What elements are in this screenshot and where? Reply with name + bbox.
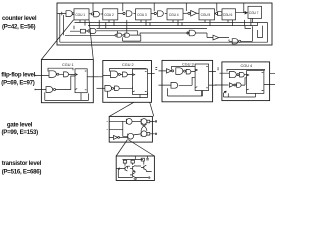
transistor Q3 (output high)	[135, 165, 146, 171]
nand gate F6 in counter feedback (bottom right)	[229, 26, 253, 44]
counter-level misc verticals	[150, 18, 251, 28]
and gate G0 (counter input)	[58, 11, 74, 17]
counter CGU3 box	[136, 9, 152, 20]
CGU1 and gate A	[49, 71, 59, 78]
CGU4 bottom clock wire	[224, 93, 256, 97]
CGU4 input wires	[215, 73, 229, 85]
CGU1 feedback loop wire	[48, 68, 73, 71]
CGU3 feedback loop wire	[172, 67, 196, 70]
level label: transistor level (P=516, E=686)	[2, 160, 42, 176]
gate-level wire nand2 to latch	[134, 134, 142, 135]
CGU2 output tick label	[155, 67, 157, 69]
CGU1 input wires	[35, 75, 49, 90]
resistor R3	[141, 158, 144, 164]
expansion line CGU2 flip-flop to gate level (left)	[109, 102, 134, 116]
resistor R1	[123, 160, 126, 166]
transistor Q1 (input, left)	[116, 166, 127, 171]
CGU2 feedback loop wire	[110, 69, 147, 72]
expansion line counter CGU1 to flip-flop CGU1 (left)	[41, 20, 73, 60]
counter-level clock feed verticals from top edge	[93, 3, 244, 13]
level label: counter level (P=42, E=56)	[2, 15, 37, 31]
CGU3 and gate D (lower)	[171, 77, 195, 88]
inverter between CGU1 and CGU2	[89, 11, 103, 17]
CGU2 buffer D (lower)	[114, 86, 133, 91]
counter CGU1 box	[74, 9, 89, 20]
CGU2 bottom clock wire	[108, 91, 148, 97]
CGU3 inverter A	[167, 69, 174, 73]
diode D1 ticks	[146, 156, 149, 160]
gate-level output Qb tick	[156, 133, 157, 135]
counter CGU2 box	[103, 9, 118, 20]
CGU3 and gate B	[176, 68, 186, 75]
CGU4 inverter C (lower)	[229, 83, 236, 87]
svg-text:gate level: gate level	[7, 122, 33, 129]
svg-text:CGU 3: CGU 3	[137, 13, 147, 17]
gate-level box	[109, 116, 152, 142]
CGU4 output wires	[264, 73, 275, 84]
gate-level latch nand 4 (bottom)	[141, 131, 150, 137]
svg-text:CGU 5: CGU 5	[201, 13, 211, 17]
svg-text:CGU 1: CGU 1	[62, 63, 74, 67]
svg-text:CGU 4: CGU 4	[241, 64, 253, 68]
CGU3 output wires	[209, 71, 217, 85]
svg-text:(P=69, E=97): (P=69, E=97)	[1, 80, 34, 87]
counter-level interconnect wires (left verticals)	[60, 14, 64, 43]
CGU2 output wire	[148, 73, 155, 75]
CGU4 zigzag clock mark	[224, 91, 227, 97]
svg-text:(P=99, E=153): (P=99, E=153)	[2, 129, 39, 136]
arrow between CGU6 and CGU7	[236, 12, 248, 14]
input merge block before F1	[70, 26, 88, 33]
svg-text:(P=42, E=56): (P=42, E=56)	[2, 24, 35, 31]
counter feedback under-loop wire	[118, 31, 141, 41]
inverter between CGU3 and CGU4	[151, 11, 167, 16]
gate-level clock buffer	[109, 135, 128, 139]
CGU2 flip-flop box	[133, 69, 148, 95]
expansion line gate to transistor level (right)	[128, 140, 154, 157]
counter CGU6 box	[222, 9, 236, 20]
flip-flop level CGU1 box	[41, 60, 93, 103]
output wire and node	[135, 171, 151, 178]
CGU4 buffer B	[239, 72, 247, 77]
CGU1 and gate C (lower)	[46, 76, 75, 92]
svg-text:CGU 2: CGU 2	[104, 13, 114, 17]
gate-level nand gate 2 (clocked, bottom)	[128, 133, 134, 139]
CGU4 feedback loop wire	[227, 69, 265, 71]
gate-level nand gate 1	[126, 119, 132, 125]
expansion line gate to transistor level (left)	[116, 140, 127, 157]
counter-level bus wire y=22.5	[75, 18, 253, 22]
gate-level input vertical wire	[123, 121, 128, 136]
flip-flop level CGU3 box	[162, 60, 213, 101]
CGU3 flip-flop box	[195, 64, 209, 91]
gate-level wire nand1 to latch	[132, 120, 141, 122]
inverter between CGU5 and CGU6	[215, 11, 223, 15]
flip-flop level CGU4 box	[222, 62, 270, 101]
inverter between CGU2 and CGU3	[118, 11, 136, 16]
svg-text:counter level: counter level	[2, 15, 37, 22]
nand gate F4 in counter feedback (right)	[187, 30, 207, 37]
svg-text:CGU 6: CGU 6	[223, 13, 233, 17]
CGU4 flip-flop box	[247, 71, 264, 94]
flip-flop level CGU2 box	[103, 61, 152, 103]
counter CGU5 box	[199, 9, 215, 20]
CGU1 flip-flop box	[75, 69, 87, 93]
gate-level input S wire	[107, 120, 126, 122]
CGU1 output wire	[87, 76, 99, 78]
CGU2 input wire (upper, from CGU1)	[99, 76, 111, 77]
counter-level bottom return wire	[60, 23, 268, 43]
buffer F5 in counter feedback	[207, 35, 229, 40]
gate-level output Q tick	[156, 120, 157, 122]
gate-level latch nand 3 (top)	[141, 119, 150, 125]
gate-level output Q wire	[150, 120, 155, 122]
svg-text:CGU 4: CGU 4	[169, 13, 179, 17]
svg-text:(P=516, E=686): (P=516, E=686)	[2, 169, 42, 176]
svg-text:CGU 2: CGU 2	[122, 63, 134, 67]
counter CGU4 box	[167, 9, 183, 20]
transistor Q2 (phase splitter)	[127, 165, 135, 171]
CGU3 input wires	[159, 71, 172, 85]
CGU1 buffer B	[59, 72, 75, 77]
gate-level input R wire	[107, 128, 123, 130]
svg-text:CGU 7: CGU 7	[249, 11, 259, 15]
transistor-level box	[116, 156, 154, 181]
nand gate F3 in counter feedback	[123, 20, 189, 37]
counter-level outer box	[57, 3, 272, 45]
CGU1 bottom clock wire	[45, 92, 89, 100]
nand gate F1 in counter feedback	[88, 23, 138, 36]
level label: flip-flop level (P=69, E=97)	[1, 71, 35, 86]
transistor-level ground	[118, 169, 137, 180]
inverter between CGU4 and CGU5	[183, 11, 199, 17]
CGU3 bottom clock wire	[168, 88, 203, 96]
transistor-level Vcc rail	[122, 156, 143, 160]
CGU2 and gate A	[111, 71, 121, 78]
CGU4 buffer D (lower)	[236, 78, 247, 88]
expansion line counter CGU1 to flip-flop CGU1 (right)	[89, 20, 93, 60]
counter-level bus wire y=25.6	[85, 20, 258, 26]
counter-level wire y=28.4	[97, 20, 208, 29]
nand gate F2 in counter feedback	[65, 33, 122, 37]
CGU3 buffer C	[186, 69, 195, 74]
svg-text:transistor level: transistor level	[2, 160, 42, 167]
svg-text:flip-flop level: flip-flop level	[1, 71, 35, 78]
expansion line CGU2 flip-flop to gate level (right)	[150, 102, 154, 116]
CGU3 output tick labels	[217, 68, 219, 70]
svg-text:CGU 3: CGU 3	[182, 63, 194, 67]
CGU4 and gate A	[229, 72, 239, 78]
level label: gate level (P=99, E=153)	[2, 122, 39, 136]
gate-level output Qb wire	[150, 133, 155, 135]
CGU2 and gate C (lower)	[105, 85, 114, 91]
transistor Q4 (output low)	[130, 172, 135, 178]
resistor R2	[131, 160, 134, 166]
counter CGU7 box	[248, 6, 262, 18]
gate-level cross-coupling wires	[141, 124, 147, 131]
CGU2 input wire (lower)	[97, 87, 105, 89]
CGU2 buffer B	[120, 72, 132, 77]
svg-text:CGU 1: CGU 1	[75, 13, 85, 17]
